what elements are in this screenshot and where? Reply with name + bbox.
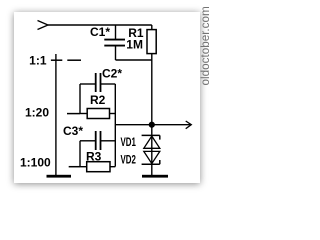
svg-text:R2: R2 <box>90 93 106 107</box>
wire: R3 right lead <box>110 166 115 168</box>
wire: R2 right lead <box>110 113 116 115</box>
wire: R3 left lead <box>80 166 87 168</box>
resistor R1 body <box>147 30 156 54</box>
junction node dot <box>149 122 155 128</box>
wire: left riser C3-R3 <box>79 141 81 167</box>
svg-text:1:1: 1:1 <box>29 53 47 67</box>
wire: right riser C2-R2-row-C3-R3 <box>114 84 116 167</box>
wire: main vertical net to ground <box>151 60 153 175</box>
schematic page card <box>14 12 200 183</box>
resistor R3 body <box>87 162 110 172</box>
switch 1:20 contact dash <box>67 113 80 115</box>
capacitor C2 right plate <box>100 73 102 92</box>
wire: C2 left lead <box>80 83 95 85</box>
svg-text:VD1: VD1 <box>121 137 137 150</box>
wire: bottom rail of C1/R1 <box>116 59 152 61</box>
wire: C1 top stub <box>115 25 117 39</box>
svg-text:C3*: C3* <box>63 124 83 138</box>
capacitor C1 top plate <box>104 39 125 41</box>
diode VD2 triangle <box>144 151 160 163</box>
wire: left riser C2-R2 <box>79 84 81 114</box>
output arrow head <box>186 121 192 129</box>
capacitor C1 bottom plate <box>104 45 125 47</box>
capacitor C3 right plate <box>100 131 102 150</box>
diode VD1 cathode hook <box>159 135 161 139</box>
svg-text:C1*: C1* <box>90 25 110 39</box>
ground bar left <box>47 175 72 178</box>
wire: R1 bottom stub <box>151 54 153 60</box>
ground bar right <box>142 175 168 178</box>
diode VD1 cathode bar <box>142 134 160 136</box>
wire: input top rail <box>48 24 152 26</box>
diode VD2 cathode bar <box>142 163 160 165</box>
capacitor C3 left plate <box>95 131 97 150</box>
wire: output row <box>115 124 191 126</box>
watermark oldoctober.com <box>199 7 211 87</box>
wire: C1 bottom stub <box>115 46 117 60</box>
resistor R2 body <box>87 109 109 119</box>
wire: C3 left lead <box>80 140 95 142</box>
diode VD2 cathode hook <box>159 160 161 164</box>
input terminal arrow <box>38 21 49 30</box>
svg-text:C2*: C2* <box>102 66 122 80</box>
svg-text:1:100: 1:100 <box>20 155 51 169</box>
switch 1:100 contact dash <box>69 166 80 168</box>
wire: R2 left lead <box>80 113 87 115</box>
svg-text:1M: 1M <box>126 38 143 52</box>
capacitor C2 left plate <box>95 73 97 92</box>
switch 1:1 contact dash <box>67 59 81 61</box>
switch 1:1 wiper tick <box>51 59 62 61</box>
svg-text:R3: R3 <box>86 149 102 163</box>
wire: C2 right lead <box>101 83 115 85</box>
switch common bus <box>55 54 57 175</box>
svg-text:1:20: 1:20 <box>25 105 49 119</box>
wire: C3 right lead <box>101 140 115 142</box>
diode VD1 triangle <box>144 136 160 148</box>
svg-text:VD2: VD2 <box>121 154 137 167</box>
wire: R1 top corner <box>151 25 153 30</box>
